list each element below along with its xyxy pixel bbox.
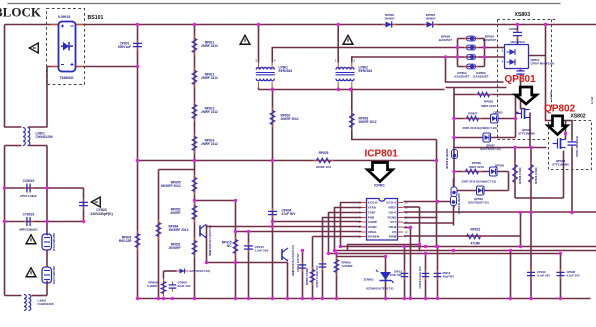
resistor RP811 — [192, 36, 197, 56]
label CP822 — [575, 135, 579, 157]
svg-text:40KRF: 40KRF — [170, 211, 180, 215]
junction at 336,253 — [335, 252, 338, 255]
pin 3 CP807 — [502, 60, 504, 64]
capacitor CP912 — [527, 269, 535, 279]
junction at 350,89 — [349, 88, 352, 91]
label CP903 — [296, 253, 300, 272]
wire under-ic — [348, 245, 420, 251]
resistor RP812 — [192, 68, 197, 88]
diode BP806 — [451, 196, 457, 206]
svg-text:22nF 10V: 22nF 10V — [178, 284, 191, 288]
wire CP801 column — [137, 25, 139, 299]
svg-text:ICP801: ICP801 — [365, 149, 399, 160]
label QP806 — [493, 111, 503, 115]
wire bp row3 — [458, 56, 485, 58]
svg-text:40uF50V: 40uF50V — [443, 274, 455, 278]
wire source row — [454, 147, 547, 149]
label CY801S value — [19, 228, 37, 232]
junction at 510,298 — [509, 297, 512, 300]
wire bp loop left — [457, 39, 459, 67]
svg-text:9-09015: 9-09015 — [58, 15, 71, 19]
label RP814 — [201, 139, 218, 147]
wire RP909 column — [336, 254, 338, 299]
junction at 530.5,212 — [529, 211, 532, 214]
resistor RP827 — [464, 116, 482, 121]
wire ground rail — [138, 298, 591, 300]
wire DW3 stub — [164, 270, 177, 272]
junction at 322,298 — [321, 297, 324, 300]
wire xs drop — [546, 25, 566, 140]
wire RP803 column — [352, 88, 437, 140]
svg-text:OD-A: OD-A — [389, 211, 398, 215]
svg-text:CH9401206: CH9401206 — [36, 135, 53, 139]
capacitor CP903 — [299, 262, 307, 272]
wire pin16 link — [404, 201, 454, 203]
svg-text:1N4937: 1N4937 — [384, 16, 395, 20]
junction at 172,298 — [171, 297, 174, 300]
junction at 137,66 — [136, 65, 139, 68]
resistor RP858 — [161, 279, 166, 297]
wire RP864 link — [159, 169, 195, 171]
label RP851 — [169, 243, 181, 251]
junction at 453.5,190 — [452, 189, 455, 192]
junction at 272,298 — [271, 297, 274, 300]
label CP807 — [531, 58, 555, 65]
diode pair QP820 — [490, 167, 498, 176]
dashed box XS802 — [549, 121, 592, 170]
wire mid rail — [138, 160, 437, 162]
svg-text:4.7uF: 4.7uF — [590, 97, 594, 105]
junction at 194,298 — [193, 297, 196, 300]
wire drive row low — [454, 137, 516, 139]
junction at 235,231 — [234, 230, 237, 233]
diode BP807 — [451, 187, 457, 197]
svg-text:CP808: CP808 — [509, 27, 519, 31]
wire comp row — [236, 231, 362, 233]
junction at 385,256 — [384, 255, 387, 258]
label CP910 — [255, 245, 269, 253]
svg-text:390KRF 2012: 390KRF 2012 — [161, 184, 181, 188]
svg-text:5.1MRF: 5.1MRF — [147, 284, 158, 288]
resistor RP803 — [350, 111, 355, 131]
junction at 419,244 — [418, 243, 421, 246]
resistor RP805 — [192, 175, 197, 195]
label DP802 — [384, 13, 395, 20]
mosfet QP801 — [517, 108, 530, 119]
wire hv sen stub — [313, 236, 362, 238]
label CP913 — [390, 270, 403, 277]
wire LX left — [5, 295, 22, 297]
label BP808 — [445, 148, 449, 169]
junction at 484,47 — [483, 46, 486, 49]
wire bridge negative — [47, 66, 138, 68]
svg-text:EER2819: EER2819 — [359, 69, 373, 73]
label QP820 value — [462, 180, 497, 184]
junction at 515,118 — [514, 117, 517, 120]
warning triangle 5 — [26, 235, 36, 244]
svg-text:STF13NM60: STF13NM60 — [518, 132, 535, 136]
resistor RP829 — [529, 162, 534, 186]
junction at 302,250 — [301, 249, 304, 252]
junction at 163,298 — [162, 297, 165, 300]
svg-text:47uF 50V: 47uF 50V — [282, 212, 297, 216]
wire snubber drop — [436, 140, 438, 247]
diode BP809 — [464, 36, 478, 41]
svg-text:RP829 104RF: RP829 104RF — [534, 167, 538, 184]
junction at 46.5,187.5 — [45, 186, 48, 189]
svg-text:RP850 4.64RF: RP850 4.64RF — [305, 268, 309, 286]
svg-text:200KRF: 200KRF — [169, 246, 181, 250]
resistor RP826 — [475, 92, 493, 97]
warning triangle 3 — [343, 35, 353, 44]
svg-text:240V330pF(K): 240V330pF(K) — [90, 212, 112, 216]
svg-text:80RF 2216: 80RF 2216 — [481, 104, 496, 108]
svg-text:HV/SEN: HV/SEN — [368, 235, 379, 239]
label RP802 — [281, 114, 299, 122]
label 9-09015 — [58, 15, 71, 19]
svg-text:BAV70(SOT-23): BAV70(SOT-23) — [190, 269, 210, 273]
label RP813 — [201, 107, 218, 115]
junction at 235,200 — [234, 199, 237, 202]
junction at 272,89 — [271, 88, 274, 91]
junction at 510,250 — [509, 249, 512, 252]
svg-text:BP806 B-HEXRF: BP806 B-HEXRF — [457, 193, 461, 214]
label RP812 — [201, 73, 218, 81]
junction at 404,246 — [403, 245, 406, 248]
wire CP903 column — [302, 251, 304, 299]
label QP807 — [480, 144, 500, 151]
diode pack CP807 — [505, 45, 529, 69]
label XS803 — [515, 12, 531, 18]
svg-text:0.1uF 50V: 0.1uF 50V — [567, 273, 580, 277]
transistor QP851 — [200, 225, 206, 239]
junction at 453,250 — [452, 249, 455, 252]
label RP822 value — [471, 242, 481, 246]
wire pin2 bus — [335, 208, 596, 251]
choke LX801 — [24, 295, 31, 311]
svg-text:16V/220uF: 16V/220uF — [510, 40, 525, 44]
wire drive row top — [454, 94, 516, 96]
label RP852 — [170, 208, 180, 216]
resistor RP909 — [334, 257, 339, 276]
label CX801S — [23, 179, 35, 183]
svg-text:VINAL: VINAL — [368, 230, 377, 234]
svg-text:RP822: RP822 — [471, 228, 481, 232]
svg-text:RP827: RP827 — [468, 112, 478, 116]
wire cp808 drop — [517, 25, 519, 32]
svg-text:1N4937: 1N4937 — [425, 16, 436, 20]
svg-text:600V1uF: 600V1uF — [118, 45, 131, 49]
svg-text:20KRF 2012: 20KRF 2012 — [359, 120, 377, 124]
diode DW3 — [177, 269, 189, 274]
svg-text:ICP801: ICP801 — [374, 184, 385, 188]
junction at 302,298 — [301, 297, 304, 300]
label CP801 — [118, 42, 131, 50]
wire RP811 column — [194, 25, 196, 299]
svg-text:12: 12 — [405, 220, 408, 224]
junction at 530.5,147 — [529, 146, 532, 149]
label CY823 — [90, 208, 112, 216]
junction at 445,56.5 — [444, 55, 447, 58]
wire RP864 column — [158, 170, 160, 299]
label CP909 — [178, 281, 191, 289]
label BLOCK — [0, 5, 42, 20]
junction at 560,298 — [559, 297, 562, 300]
junction at 235,298 — [234, 297, 237, 300]
wire choke top right — [29, 126, 48, 128]
resistor RP828 — [513, 162, 518, 186]
svg-text:COMP: COMP — [368, 220, 377, 224]
junction at 158,298 — [157, 297, 160, 300]
label BP806 — [457, 193, 461, 214]
red label QP802 — [544, 104, 576, 115]
label LP802 — [359, 66, 373, 74]
wire CX row — [5, 187, 84, 189]
label CP907 — [315, 265, 319, 287]
label CP912 — [537, 270, 550, 277]
warning triangle 4 — [91, 197, 100, 207]
svg-text:CP807 MURF1060: CP807 MURF1060 — [531, 61, 555, 65]
svg-text:QP820: QP820 — [495, 164, 505, 168]
svg-text:BAS250ET: BAS250ET — [473, 74, 488, 78]
svg-text:ZDW01: ZDW01 — [364, 278, 374, 282]
svg-text:2MRF 2312: 2MRF 2312 — [201, 142, 218, 146]
junction at 137,298 — [136, 297, 139, 300]
arrow QP802 — [548, 116, 567, 135]
svg-text:ECO-B: ECO-B — [368, 201, 379, 205]
capacitor CP821 — [517, 68, 525, 78]
junction at 514.5,147 — [513, 146, 516, 149]
wire bp to box1 — [485, 47, 505, 49]
wire left column — [4, 25, 6, 128]
svg-text:120HRF: 120HRF — [342, 264, 353, 268]
capacitor CP908b — [557, 269, 565, 279]
resistor RP830 — [463, 169, 482, 174]
pin 1 CP807 — [502, 49, 504, 53]
junction at 437,201 — [436, 200, 439, 203]
junction at 545,24 — [544, 23, 547, 26]
label QP809 — [468, 197, 488, 204]
junction at 517,24 — [516, 23, 519, 26]
svg-text:T93806G: T93806G — [59, 76, 73, 80]
junction at 272,226 — [271, 225, 274, 228]
svg-text:CH9401206: CH9401206 — [38, 302, 54, 306]
svg-text:VTAB: VTAB — [368, 206, 377, 210]
junction at 194,160 — [193, 159, 196, 162]
svg-text:BAS250T: BAS250T — [439, 38, 452, 42]
svg-text:BZX84SVILTES0T-21: BZX84SVILTES0T-21 — [367, 287, 395, 291]
resistor RP813 — [192, 102, 197, 122]
junction at 437,246 — [436, 245, 439, 248]
svg-text:BLOCK: BLOCK — [0, 5, 42, 20]
svg-text:BS101: BS101 — [88, 15, 104, 21]
capacitor CP909 — [169, 282, 177, 292]
junction at 457,56.5 — [456, 55, 459, 58]
wire bp bottom — [458, 66, 485, 68]
label T93806G — [59, 76, 73, 80]
label CY801S — [23, 213, 35, 217]
dashed box XS803 right — [551, 20, 553, 109]
label QP801 part — [518, 128, 535, 136]
resistor RP864 — [156, 220, 161, 240]
bridge rectifier BD801 — [51, 22, 84, 72]
wire RP828 column — [514, 148, 516, 199]
junction at 272,160 — [271, 159, 274, 162]
svg-text:CX801S: CX801S — [23, 179, 35, 183]
junction at 425,246 — [424, 245, 427, 248]
label ICP801 part — [374, 184, 385, 188]
wire aux row2 — [446, 87, 507, 89]
junction at 206,262 — [205, 261, 208, 264]
capacitor CY801S — [24, 217, 34, 226]
wire acnd row — [207, 226, 362, 228]
wire cp822 bottom — [571, 147, 573, 213]
junction at 457,47 — [456, 46, 459, 49]
red label QP801 — [505, 74, 537, 85]
junction at 312,298 — [311, 297, 314, 300]
wire vinal row — [273, 221, 362, 223]
label QP806 value — [463, 126, 498, 130]
svg-text:14: 14 — [405, 211, 408, 215]
transistor QP852 — [282, 248, 288, 262]
wire CP905 column — [312, 237, 314, 299]
junction at 137,160 — [136, 159, 139, 162]
wire pin3 bus — [329, 213, 561, 254]
svg-text:PGND: PGND — [387, 216, 397, 220]
label 4.7uF — [549, 92, 553, 100]
label NR802 — [52, 266, 56, 284]
wire gd rail — [404, 235, 521, 237]
label RP826 — [481, 100, 496, 108]
label QP802 part — [552, 159, 569, 167]
svg-text:10nF 50V: 10nF 50V — [390, 273, 402, 277]
junction at 194,200 — [193, 199, 196, 202]
wire choke bottom right — [29, 145, 48, 147]
IC ICP801 box — [367, 199, 398, 241]
svg-text:CP906 0.22uF 16V: CP906 0.22uF 16V — [418, 266, 422, 288]
label QP852 — [291, 245, 295, 276]
wire CY823 branch — [83, 188, 85, 222]
wire emitter row — [207, 262, 288, 264]
svg-text:275V1.43uF: 275V1.43uF — [20, 194, 37, 198]
capacitor CP913 — [401, 270, 409, 280]
svg-text:CS: CS — [392, 230, 396, 234]
wire cluster right col — [515, 95, 517, 138]
wire RP915 column — [235, 201, 237, 299]
resistor RP915 — [233, 237, 238, 257]
svg-text:RP828 104RF: RP828 104RF — [518, 167, 522, 184]
wire cp822 top — [566, 121, 573, 141]
svg-text:NC: NC — [227, 244, 232, 248]
label QP820 — [495, 164, 505, 168]
wire sense bottom row — [515, 197, 564, 199]
svg-text:OD-B: OD-B — [389, 225, 398, 229]
capacitor CP910 — [244, 243, 253, 253]
junction at 338,89 — [337, 88, 340, 91]
wire CP910 column — [248, 232, 250, 299]
capacitor CX801S — [24, 184, 34, 193]
label RP825 — [319, 151, 329, 155]
wire pin1 bus — [341, 203, 596, 247]
wire pin15 link — [404, 206, 420, 208]
junction at 453.5,118 — [452, 117, 455, 120]
warning triangle 1 — [29, 43, 38, 53]
label CP808 — [509, 27, 519, 31]
junction at 436,160 — [435, 159, 438, 162]
label XS802 — [571, 114, 586, 120]
svg-text:471RF: 471RF — [471, 242, 481, 246]
wire QP852 col — [287, 263, 289, 299]
svg-text:MRV330p(K): MRV330p(K) — [19, 228, 37, 232]
label LP801 — [279, 66, 293, 74]
wire gate stub — [516, 112, 519, 114]
arrester NR801 — [42, 234, 52, 250]
svg-text:BAS250T: BAS250T — [483, 38, 496, 42]
wire drive2 row top — [454, 171, 509, 173]
label RP827 — [468, 112, 478, 116]
svg-text:BAV70(SOT-23): BAV70(SOT-23) — [468, 200, 488, 204]
svg-text:15: 15 — [405, 206, 408, 210]
wire CP906 column — [425, 254, 427, 299]
svg-text:CP903 1uF 50V: CP903 1uF 50V — [296, 253, 300, 272]
label RP909 — [342, 261, 353, 268]
wire CP915 column — [437, 247, 439, 299]
wire box to drain — [520, 69, 522, 71]
svg-text:MMBT2907ALT1(SOT-23): MMBT2907ALT1(SOT-23) — [208, 225, 212, 256]
junction at 337.7,24 — [337, 23, 340, 26]
diode pair QP806 — [491, 114, 499, 123]
wire pin4 bus — [323, 218, 362, 299]
junction at 340,246 — [339, 245, 342, 248]
diode BP808 — [452, 150, 458, 159]
pin 4 LP801 — [274, 59, 276, 63]
label BP802b — [483, 35, 496, 42]
wire QP851 col — [206, 225, 208, 263]
junction at 453.5,171 — [452, 170, 455, 173]
wire CP912 column — [530, 148, 532, 299]
wire LX right — [32, 295, 48, 297]
label NR801 — [52, 233, 56, 251]
junction at 258,24 — [257, 23, 260, 26]
svg-text:CP822 16V/220uF: CP822 16V/220uF — [575, 135, 579, 157]
junction at 336,298 — [335, 297, 338, 300]
label RP830 — [469, 161, 484, 169]
wire drain col — [521, 75, 525, 109]
wire transformer bottom rail — [259, 89, 445, 91]
dashed box XS803 left — [497, 20, 499, 140]
junction at 4,221 — [3, 220, 6, 223]
junction at 437,298 — [436, 297, 439, 300]
warning triangle 2 — [240, 35, 250, 44]
wire pin15 col — [419, 207, 421, 252]
capacitor CP906 — [422, 270, 430, 280]
label RP825 value — [316, 165, 332, 169]
svg-text:CP907 0.33uF 16V: CP907 0.33uF 16V — [315, 265, 319, 287]
junction at 137,24 — [136, 23, 139, 26]
wire bridge neg drop — [46, 67, 48, 128]
label CP906 — [418, 266, 422, 288]
label RP858 — [147, 281, 158, 289]
wire bp row2 — [458, 47, 485, 49]
svg-text:BP808 B-HEXRF: BP808 B-HEXRF — [445, 148, 449, 169]
resistor RP814 — [192, 134, 197, 154]
svg-text:VCT: VCT — [390, 220, 396, 224]
label DW3 — [190, 269, 210, 273]
label RP803 — [359, 117, 377, 125]
capacitor CP915 — [434, 270, 442, 280]
label RP850 — [305, 268, 309, 286]
wire DSC to LX — [46, 281, 48, 296]
